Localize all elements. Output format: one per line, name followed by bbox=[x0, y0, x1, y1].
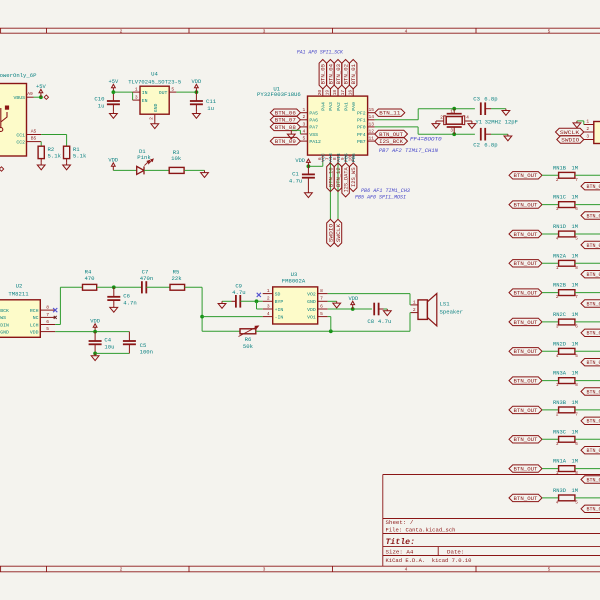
svg-text:PA12: PA12 bbox=[309, 139, 321, 145]
svg-text:SD: SD bbox=[275, 291, 281, 297]
svg-text:BTN_OUT: BTN_OUT bbox=[514, 467, 538, 473]
svg-text:BTN_04: BTN_04 bbox=[328, 64, 334, 84]
global label SWDIO bbox=[327, 219, 334, 246]
svg-text:6.8p: 6.8p bbox=[484, 142, 497, 149]
svg-text:1M: 1M bbox=[572, 165, 578, 171]
svg-text:PY32F003F18U6: PY32F003F18U6 bbox=[257, 91, 301, 98]
svg-text:SWCLK: SWCLK bbox=[560, 130, 579, 136]
svg-text:BTN_0: BTN_0 bbox=[587, 477, 600, 483]
svg-text:A9: A9 bbox=[27, 91, 33, 97]
svg-text:1u: 1u bbox=[207, 105, 214, 112]
svg-text:1M: 1M bbox=[572, 224, 578, 230]
svg-text:15: 15 bbox=[368, 107, 374, 113]
wire U3 GND to ground bbox=[328, 300, 337, 302]
global label BTN (cut) row RN3C bbox=[581, 447, 600, 454]
global label BTN (cut) row RN1D bbox=[581, 241, 600, 248]
svg-text:2: 2 bbox=[120, 567, 123, 573]
svg-text:CC1: CC1 bbox=[16, 132, 25, 138]
svg-text:BTN_0: BTN_0 bbox=[587, 301, 600, 307]
global label SWDIO at SWD pin3 bbox=[557, 136, 584, 143]
svg-text:2: 2 bbox=[303, 114, 306, 120]
wire RN1B to right edge bbox=[575, 174, 600, 176]
wire +5V to U4 IN bbox=[113, 91, 132, 93]
svg-text:GND: GND bbox=[307, 299, 316, 305]
wire C9 to BYP bbox=[240, 300, 262, 302]
junction VCC node bbox=[307, 164, 311, 168]
no-connect at U3 SD bbox=[257, 293, 261, 297]
global label BTN_OUT row RN2C bbox=[509, 318, 542, 325]
svg-text:8: 8 bbox=[575, 266, 578, 271]
svg-text:50k: 50k bbox=[243, 343, 254, 350]
wire C4 bottom to C5 bottom bbox=[95, 352, 129, 354]
svg-text:VBUS: VBUS bbox=[13, 95, 25, 101]
svg-text:BTN_0: BTN_0 bbox=[587, 272, 600, 278]
wire PA13 to SWDIO bbox=[329, 162, 331, 219]
svg-text:PA0: PA0 bbox=[351, 102, 357, 111]
ground at SWD pin1 bbox=[576, 121, 578, 123]
svg-text:-IN: -IN bbox=[275, 314, 284, 320]
svg-text:BTN_OUT: BTN_OUT bbox=[514, 496, 538, 502]
wire C9 to ground bbox=[222, 300, 232, 302]
svg-text:BTN_0: BTN_0 bbox=[587, 448, 600, 454]
pin 1 of SWD connector bbox=[584, 124, 594, 126]
svg-text:PB7: PB7 bbox=[357, 139, 366, 145]
svg-text:NC: NC bbox=[33, 315, 39, 321]
svg-text:Pink: Pink bbox=[137, 154, 151, 161]
junction U4 input node bbox=[112, 90, 116, 94]
crystal case pin 4 and ground right bbox=[463, 116, 465, 125]
svg-text:6: 6 bbox=[575, 325, 578, 330]
global label BTN_11 at pin 15 bbox=[375, 109, 405, 116]
wire U2 LCH to R4 bbox=[55, 324, 60, 326]
svg-text:I2S_WS: I2S_WS bbox=[351, 167, 357, 187]
svg-text:VO1: VO1 bbox=[307, 314, 316, 320]
svg-text:PB6 AF1 TIM1_CH3: PB6 AF1 TIM1_CH3 bbox=[361, 188, 410, 194]
global label BTN_OUT row RN3B bbox=[509, 406, 542, 413]
wire VSS to ground bbox=[299, 130, 301, 134]
svg-text:1M: 1M bbox=[572, 459, 578, 465]
unconnected-end marker at VBUS bbox=[44, 95, 48, 99]
svg-text:VDD: VDD bbox=[349, 296, 359, 302]
wire BTN_OUT to RN2D bbox=[542, 350, 559, 352]
junction VBUS node bbox=[39, 95, 43, 99]
svg-text:PA5: PA5 bbox=[309, 111, 318, 117]
svg-text:1: 1 bbox=[267, 288, 270, 294]
svg-text:8: 8 bbox=[575, 471, 578, 476]
svg-text:IN: IN bbox=[142, 90, 148, 96]
svg-text:PA4: PA4 bbox=[321, 102, 327, 111]
wire RN2B to right edge bbox=[575, 292, 600, 294]
wire BTN_OUT to RN3D bbox=[542, 497, 559, 499]
svg-text:BTN_0: BTN_0 bbox=[587, 243, 600, 249]
svg-text:PA3: PA3 bbox=[328, 102, 334, 111]
wire BTN_OUT to RN1D bbox=[542, 233, 559, 235]
svg-text:6: 6 bbox=[575, 442, 578, 447]
svg-text:BTN_OUT: BTN_OUT bbox=[514, 291, 538, 297]
svg-text:2: 2 bbox=[413, 307, 416, 313]
regulator U4 body bbox=[140, 86, 169, 114]
junction C6 tap bbox=[112, 285, 116, 289]
global label BTN_OUT row RN2A bbox=[509, 260, 542, 267]
ground at C8 bbox=[386, 309, 388, 311]
svg-text:RN2D: RN2D bbox=[553, 341, 566, 347]
U3 left pins 1-4 bbox=[263, 293, 273, 295]
power symbol VDD at U3 bbox=[352, 305, 354, 309]
global label BTN_OUT at pin 12 bbox=[375, 130, 408, 137]
svg-text:Title:: Title: bbox=[386, 537, 415, 547]
svg-text:2: 2 bbox=[556, 413, 559, 418]
pin 3 EN of U4 bbox=[133, 99, 140, 101]
svg-text:PB7 AF2 TIM17_CH1N: PB7 AF2 TIM17_CH1N bbox=[379, 148, 439, 154]
svg-text:Date:: Date: bbox=[447, 548, 464, 555]
svg-text:3: 3 bbox=[586, 134, 589, 140]
wire R3 to ground bbox=[184, 169, 204, 171]
svg-text:WS: WS bbox=[0, 315, 6, 321]
amplifier U3 body bbox=[273, 287, 318, 324]
svg-text:FM8002A: FM8002A bbox=[282, 277, 306, 284]
svg-text:1: 1 bbox=[135, 86, 138, 92]
svg-text:3: 3 bbox=[556, 325, 559, 330]
svg-text:1M: 1M bbox=[572, 371, 578, 377]
global label BTN_01 at top pin 16 bbox=[350, 60, 357, 89]
svg-text:RN3C: RN3C bbox=[553, 429, 566, 435]
crystal case pin 2 and ground left bbox=[444, 116, 446, 125]
ground under R2 bbox=[40, 163, 42, 165]
svg-text:5.1k: 5.1k bbox=[73, 153, 87, 160]
sheet border top bbox=[0, 27, 600, 29]
global label BTN_OUT row RN1A bbox=[509, 465, 542, 472]
global label BTN_OUT row RN3D bbox=[509, 494, 542, 501]
svg-text:VDD: VDD bbox=[108, 158, 118, 164]
svg-text:Speaker: Speaker bbox=[440, 309, 464, 316]
svg-text:+5V: +5V bbox=[109, 79, 119, 85]
svg-text:SWDIO: SWDIO bbox=[561, 137, 579, 143]
svg-text:8: 8 bbox=[320, 288, 323, 294]
no-connect at U2 NC bbox=[54, 316, 57, 319]
svg-text:1: 1 bbox=[556, 383, 559, 388]
svg-text:BYP: BYP bbox=[275, 299, 284, 305]
svg-text:PA1: PA1 bbox=[343, 102, 349, 111]
wire PA14 to SWCLK bbox=[337, 162, 339, 219]
svg-text:DIN: DIN bbox=[0, 322, 9, 328]
svg-text:2: 2 bbox=[586, 126, 589, 132]
svg-text:C2: C2 bbox=[473, 142, 480, 149]
svg-text:5: 5 bbox=[575, 237, 578, 242]
USB symbol inside J1 bbox=[0, 106, 9, 132]
svg-text:22k: 22k bbox=[172, 275, 183, 282]
svg-text:BTN_OUT: BTN_OUT bbox=[514, 320, 538, 326]
svg-text:4: 4 bbox=[405, 567, 408, 573]
wire VO1 down bbox=[328, 316, 331, 318]
svg-text:RN1B: RN1B bbox=[553, 165, 567, 171]
svg-text:32MHz 12pF: 32MHz 12pF bbox=[485, 118, 518, 125]
svg-text:PA1 AF0 SPI1_SCK: PA1 AF0 SPI1_SCK bbox=[297, 49, 344, 55]
wire U3 VDD rail bbox=[328, 308, 372, 310]
svg-text:BTN_OUT: BTN_OUT bbox=[514, 173, 538, 179]
sheet border bottom bbox=[0, 565, 600, 567]
svg-text:PA7: PA7 bbox=[309, 125, 318, 131]
global label BTN_09 at pin 5 bbox=[270, 137, 300, 144]
svg-text:BTN_11: BTN_11 bbox=[379, 111, 400, 117]
U3 right pins 8-5 bbox=[318, 293, 328, 295]
global label BTN (cut) row RN3D bbox=[581, 505, 600, 512]
connector J2 SWD body bbox=[594, 122, 600, 144]
wire IN-EN tie bbox=[132, 92, 134, 100]
svg-text:8: 8 bbox=[46, 305, 49, 311]
global label BTN (cut) row RN2B bbox=[581, 300, 600, 307]
svg-text:3: 3 bbox=[556, 207, 559, 212]
svg-text:RN3B: RN3B bbox=[553, 400, 567, 406]
wire RN3B to right edge bbox=[575, 409, 600, 411]
svg-text:4: 4 bbox=[556, 501, 559, 506]
svg-text:4: 4 bbox=[556, 237, 559, 242]
U1 right pins 15-11 bbox=[368, 112, 375, 114]
wire CC1 to R1 bbox=[41, 134, 66, 136]
global label BTN_03 at top pin 18 bbox=[334, 60, 341, 89]
svg-text:BTN_0: BTN_0 bbox=[587, 360, 600, 366]
svg-text:12: 12 bbox=[368, 128, 374, 134]
wire RN1C to right edge bbox=[575, 204, 600, 206]
svg-text:2: 2 bbox=[440, 116, 443, 121]
svg-text:5: 5 bbox=[171, 86, 174, 92]
wire BTN_OUT to RN3A bbox=[542, 380, 559, 382]
ground under U4 bbox=[154, 122, 156, 124]
svg-text:BTN_09: BTN_09 bbox=[275, 139, 296, 145]
wire speaker pin2 to loop bbox=[409, 313, 411, 332]
wire VCC to VDD bbox=[322, 162, 324, 166]
svg-text:7: 7 bbox=[320, 296, 323, 302]
power symbol VDD at U1 VCC bbox=[307, 162, 309, 166]
svg-text:1M: 1M bbox=[572, 283, 578, 289]
U1 top pins 20-16 bbox=[322, 89, 324, 96]
wire RN3A to right edge bbox=[575, 380, 600, 382]
power symbol VDD at D1 bbox=[112, 166, 114, 170]
svg-text:PF4=BOOT0: PF4=BOOT0 bbox=[410, 136, 442, 142]
global label BTN (cut) row RN3A bbox=[581, 388, 600, 395]
pin 2 GND of U4 bbox=[154, 114, 156, 121]
global label I2S_BCK at pin 11 bbox=[375, 137, 408, 144]
svg-text:6.8p: 6.8p bbox=[484, 96, 497, 103]
svg-text:17: 17 bbox=[340, 90, 346, 96]
svg-text:BTN_0: BTN_0 bbox=[587, 331, 600, 337]
junction crystal top node bbox=[452, 107, 456, 111]
svg-text:VDD: VDD bbox=[192, 79, 202, 85]
svg-text:SWDIO: SWDIO bbox=[328, 224, 334, 242]
wire CC2 to R2 bbox=[40, 142, 42, 147]
svg-text:File: Canta.kicad_sch: File: Canta.kicad_sch bbox=[386, 526, 456, 533]
svg-text:VDD: VDD bbox=[307, 307, 316, 313]
svg-text:USB_C_Receptacle_PowerOnly_6P: USB_C_Receptacle_PowerOnly_6P bbox=[0, 72, 37, 79]
unconnected-end marker below J1 shield bbox=[0, 167, 4, 171]
junction crystal bottom node bbox=[452, 132, 456, 136]
svg-text:BTN_0: BTN_0 bbox=[587, 507, 600, 513]
ground at C9 bbox=[221, 301, 223, 303]
global label BTN_02 at top pin 17 bbox=[342, 60, 349, 89]
svg-text:BTN_OUT: BTN_OUT bbox=[514, 261, 538, 267]
svg-text:Y1: Y1 bbox=[475, 118, 482, 125]
global label BTN (cut) row RN2A bbox=[581, 271, 600, 278]
svg-text:1: 1 bbox=[450, 109, 453, 114]
svg-text:8: 8 bbox=[575, 383, 578, 388]
global label BTN_08 at pin 3 bbox=[270, 123, 300, 130]
ground after C2 bbox=[507, 134, 509, 136]
svg-text:2: 2 bbox=[267, 296, 270, 302]
svg-text:KiCad E.D.A. kicad 7.0.10: KiCad E.D.A. kicad 7.0.10 bbox=[386, 557, 472, 564]
svg-text:BTN_OUT: BTN_OUT bbox=[514, 379, 538, 385]
svg-text:B5: B5 bbox=[31, 136, 37, 142]
ground after C3 bbox=[505, 109, 507, 111]
global label BTN_OUT row RN2B bbox=[509, 289, 542, 296]
wire -IN from R5/R6 node bbox=[202, 316, 263, 318]
U1 left pins 1-5 bbox=[300, 112, 307, 114]
svg-text:5: 5 bbox=[575, 354, 578, 359]
global label SWCLK bbox=[334, 219, 341, 246]
svg-text:BCK: BCK bbox=[0, 308, 9, 314]
resistor R1 5.1k bbox=[64, 146, 70, 158]
svg-text:Size: A4: Size: A4 bbox=[386, 548, 414, 555]
power symbol VDD at U2 rail bbox=[94, 327, 96, 331]
wire PF1 to crystal top node bbox=[375, 119, 419, 121]
svg-text:+IN: +IN bbox=[275, 307, 284, 313]
svg-text:OUT: OUT bbox=[159, 90, 168, 96]
svg-text:1M: 1M bbox=[572, 400, 578, 406]
svg-text:GND: GND bbox=[153, 103, 159, 112]
wire BTN_OUT to RN2C bbox=[542, 321, 559, 323]
svg-text:C6: C6 bbox=[123, 292, 130, 299]
svg-text:6: 6 bbox=[575, 207, 578, 212]
svg-text:1M: 1M bbox=[572, 341, 578, 347]
svg-text:U4: U4 bbox=[151, 71, 158, 78]
global label BTN_12 at pin 8 bbox=[334, 163, 341, 192]
global label BTN (cut) row RN1C bbox=[581, 212, 600, 219]
svg-text:BTN_03: BTN_03 bbox=[336, 64, 342, 84]
global label BTN_OUT row RN3A bbox=[509, 377, 542, 384]
svg-text:1: 1 bbox=[303, 107, 306, 113]
svg-text:EN: EN bbox=[142, 98, 148, 104]
U1 bottom pins 6-10 bbox=[322, 155, 324, 162]
svg-text:3: 3 bbox=[303, 121, 306, 127]
svg-text:4: 4 bbox=[556, 354, 559, 359]
svg-text:BTN_10: BTN_10 bbox=[328, 167, 334, 187]
svg-text:BTN_0: BTN_0 bbox=[587, 184, 600, 190]
wire RN1D to right edge bbox=[575, 233, 600, 235]
svg-text:3: 3 bbox=[556, 442, 559, 447]
svg-text:7: 7 bbox=[46, 312, 49, 318]
global label BTN_07 at pin 2 bbox=[270, 116, 300, 123]
svg-text:VDD: VDD bbox=[295, 158, 305, 164]
svg-text:I2S_BCK: I2S_BCK bbox=[379, 139, 403, 145]
junction BYP/+IN tie bbox=[255, 299, 259, 303]
wire C7 to R5 bbox=[146, 286, 170, 288]
svg-text:1: 1 bbox=[556, 266, 559, 271]
svg-text:C10: C10 bbox=[94, 96, 105, 103]
svg-text:10u: 10u bbox=[104, 344, 114, 351]
global label BTN_OUT row RN1C bbox=[509, 201, 542, 208]
wire RN3C to right edge bbox=[575, 438, 600, 440]
global label BTN_OUT row RN1B bbox=[509, 172, 542, 179]
junction U3 VDD bbox=[351, 307, 355, 311]
global label I2S_WS at pin 10 bbox=[350, 163, 357, 192]
wire R4 to C7 bbox=[97, 286, 142, 288]
wire VO2 to speaker bbox=[328, 293, 410, 295]
svg-text:BTN_0: BTN_0 bbox=[587, 389, 600, 395]
U2 right pins 8-5 bbox=[40, 309, 55, 311]
svg-text:RN1C: RN1C bbox=[553, 195, 566, 201]
svg-text:1M: 1M bbox=[572, 253, 578, 259]
svg-text:RN1A: RN1A bbox=[553, 459, 567, 465]
svg-text:SWCLK: SWCLK bbox=[336, 224, 342, 242]
svg-text:VDD: VDD bbox=[90, 318, 100, 324]
svg-text:BTN_OUT: BTN_OUT bbox=[514, 203, 538, 209]
global label BTN (cut) row RN2C bbox=[581, 329, 600, 336]
pin A5 CC1 of J1 bbox=[27, 134, 42, 136]
svg-text:2: 2 bbox=[120, 28, 123, 34]
global label BTN (cut) row RN1A bbox=[581, 476, 600, 483]
connector J1 body bbox=[0, 84, 27, 157]
svg-text:20: 20 bbox=[317, 90, 323, 96]
wire BTN_OUT to RN2A bbox=[542, 262, 559, 264]
svg-text:4.7u: 4.7u bbox=[232, 289, 245, 296]
global label BTN_10 at pin 7 bbox=[327, 163, 334, 192]
svg-text:PA2: PA2 bbox=[336, 102, 342, 111]
svg-text:6: 6 bbox=[46, 319, 49, 325]
ground under C4 bbox=[94, 353, 96, 355]
svg-text:BTN_0: BTN_0 bbox=[587, 419, 600, 425]
ground after R3 bbox=[204, 170, 206, 172]
svg-text:4: 4 bbox=[405, 28, 408, 34]
global label I2S_DATA at pin 9 bbox=[342, 163, 349, 197]
svg-text:U2: U2 bbox=[16, 283, 23, 290]
svg-text:4.7u: 4.7u bbox=[289, 177, 302, 184]
pin A9 VBUS of J1 bbox=[27, 96, 34, 98]
svg-text:7: 7 bbox=[575, 295, 578, 300]
svg-text:470n: 470n bbox=[140, 275, 153, 282]
svg-text:BTN_12: BTN_12 bbox=[336, 167, 342, 187]
svg-text:5.1k: 5.1k bbox=[48, 153, 62, 160]
wire SWD pin1 to ground bbox=[583, 121, 585, 125]
svg-text:1M: 1M bbox=[572, 429, 578, 435]
svg-text:BTN_02: BTN_02 bbox=[344, 64, 350, 84]
svg-text:PF2: PF2 bbox=[357, 111, 366, 117]
junction C4 bottom bbox=[93, 352, 97, 356]
global label BTN_05 at top pin 20 bbox=[319, 60, 326, 89]
svg-text:4: 4 bbox=[303, 128, 306, 134]
svg-text:1: 1 bbox=[586, 119, 589, 125]
wire BYP to +IN bbox=[256, 301, 258, 309]
title block frame bbox=[382, 475, 384, 567]
MCU U1 body bbox=[308, 96, 368, 155]
svg-text:5: 5 bbox=[548, 28, 551, 34]
svg-text:I2S_DATA: I2S_DATA bbox=[344, 167, 350, 192]
svg-text:3: 3 bbox=[267, 303, 270, 309]
pin 5 OUT of U4 bbox=[169, 91, 176, 93]
svg-text:10k: 10k bbox=[171, 155, 182, 162]
svg-text:3: 3 bbox=[263, 567, 266, 573]
svg-text:BTN_01: BTN_01 bbox=[351, 64, 357, 84]
svg-text:A5: A5 bbox=[31, 129, 37, 135]
svg-text:6: 6 bbox=[320, 303, 323, 309]
global label BTN_OUT row RN2D bbox=[509, 348, 542, 355]
svg-text:2: 2 bbox=[148, 117, 154, 120]
power symbol +5V at U4 input bbox=[112, 88, 114, 92]
ground under C11 bbox=[195, 111, 197, 113]
svg-text:4.7u: 4.7u bbox=[378, 318, 391, 325]
svg-text:C11: C11 bbox=[206, 98, 217, 105]
wire C2 to ground bbox=[491, 133, 508, 135]
svg-text:1M: 1M bbox=[572, 195, 578, 201]
svg-text:470: 470 bbox=[84, 275, 95, 282]
wire RN2D to right edge bbox=[575, 350, 600, 352]
